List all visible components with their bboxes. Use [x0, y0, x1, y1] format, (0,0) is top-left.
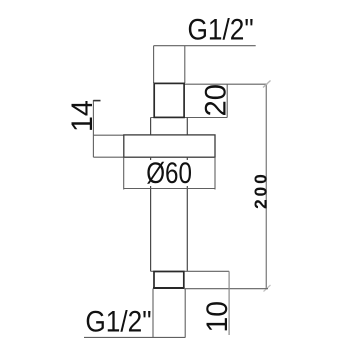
- svg-text:10: 10: [201, 301, 234, 332]
- dimension line G1/2 top: [154, 45, 256, 47]
- tick 14 top: [93, 100, 100, 102]
- svg-text:G1/2": G1/2": [85, 305, 151, 338]
- tick 200 top: [263, 81, 271, 88]
- svg-text:20: 20: [199, 84, 232, 116]
- extension line top left: [153, 46, 155, 83]
- extension line 10/200 bottom: [184, 288, 268, 290]
- extension line 20/200 top: [184, 83, 267, 85]
- svg-text:14: 14: [66, 100, 98, 132]
- extension line top right: [184, 46, 186, 83]
- thread square bottom edge emphasis: [153, 287, 185, 289]
- dimension line 200: [265, 84, 267, 289]
- label d60 halo: [144, 160, 192, 186]
- extension line 14 / flange top: [93, 134, 124, 136]
- thread square bottom G1/2: [154, 272, 184, 289]
- svg-text:Ø60: Ø60: [146, 157, 192, 190]
- tick 200 bottom: [264, 285, 271, 292]
- extension line 14 / flange bottom: [93, 156, 124, 158]
- extension line d60 left: [123, 158, 125, 190]
- flange: [124, 135, 215, 157]
- pipe body: [150, 157, 152, 271]
- extension line 20 bottom / pipe step: [151, 117, 228, 119]
- dimension line d60: [124, 188, 215, 190]
- pipe neck: [150, 118, 152, 136]
- dimension line 20: [226, 84, 228, 117]
- dimension line 10: [228, 271, 230, 335]
- dimension line 14: [92, 100, 94, 157]
- extension line bottom G1/2 left: [152, 289, 154, 338]
- extension line d60 right: [214, 158, 216, 190]
- dimension line G1/2 bottom: [84, 336, 185, 338]
- extension line bottom G1/2 right: [184, 289, 186, 338]
- pipe bottom step / extension 10 top: [151, 270, 230, 272]
- thread square top G1/2: [154, 83, 184, 117]
- svg-text:200: 200: [251, 171, 271, 209]
- svg-text:G1/2": G1/2": [188, 13, 254, 46]
